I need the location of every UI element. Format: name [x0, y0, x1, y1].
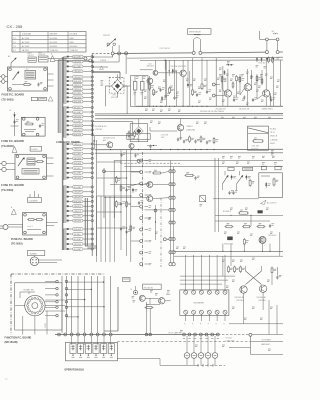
capacitor C71: [276, 276, 278, 278]
capacitor C32: [183, 140, 185, 142]
rail y106 dots: [149, 106, 150, 107]
bridge dark center: [115, 83, 120, 88]
wire main bus 2: [202, 51, 265, 54]
svg-text:25F2: 25F2: [113, 95, 117, 97]
svg-text:2SC1400 GR: 2SC1400 GR: [239, 109, 250, 111]
fuse F10: [273, 33, 278, 34]
node B2: [118, 52, 121, 55]
wire rotary taps: [45, 299, 65, 301]
wire main bus dashed: [92, 53, 111, 55]
operation bus junctions right: [183, 333, 186, 336]
svg-text:(TG-D003): (TG-D003): [1, 144, 14, 148]
outlet J1: [2, 161, 6, 165]
svg-text:PILOT LAMP 8V: PILOT LAMP 8V: [169, 331, 182, 334]
transformer T1 secondary w2: [63, 106, 66, 108]
resistor R33: [189, 136, 191, 138]
tuner label box: [27, 251, 44, 256]
capacitor C42: [194, 177, 196, 179]
switch S42: [237, 175, 243, 184]
wire below rotary: [22, 316, 24, 335]
wire link y178: [97, 177, 127, 179]
wire bus lower y57.7: [127, 56, 283, 59]
fuse box FB1: [228, 167, 234, 170]
svg-text:110-220V: 110-220V: [50, 42, 58, 44]
transformer T1 secondary w3: [63, 142, 66, 144]
svg-text:(TG-5003): (TG-5003): [1, 188, 13, 192]
resistor R64: [240, 266, 242, 268]
plug pair P13: [169, 263, 172, 266]
rail y149 dots: [110, 149, 111, 150]
svg-text:SILICON: SILICON: [111, 97, 117, 99]
wire out stage links: [227, 69, 229, 90]
fuse board 3 (TG-5003): [15, 154, 46, 179]
wire vert x130.8: [130, 150, 132, 262]
switch S0 above bus: [107, 43, 109, 45]
wire rail y149.5: [95, 148, 283, 150]
svg-text:ORN-WHT: ORN-WHT: [74, 192, 82, 194]
svg-text:4.7W REG: 4.7W REG: [95, 129, 103, 131]
svg-text:BLK-WHT: BLK-WHT: [74, 56, 82, 58]
wire box edge y160.5: [114, 160, 283, 162]
relay RY2 box: [39, 56, 49, 62]
text box TB1: [93, 122, 133, 136]
bridge rectifier D2: [134, 127, 143, 136]
wire rail y113.7: [95, 113, 283, 115]
svg-text:YEL-BLK: YEL-BLK: [74, 234, 82, 236]
svg-text:(2SB507A): (2SB507A): [187, 128, 196, 131]
capacitor C41: [138, 202, 140, 204]
svg-text:2SC1000 BL: 2SC1000 BL: [235, 297, 245, 299]
diode D10: [172, 69, 174, 74]
transistor Q13: [147, 182, 153, 188]
svg-text:2SD234 Y: 2SD234 Y: [147, 66, 156, 68]
svg-text:+: +: [132, 79, 133, 81]
resistor R25: [261, 78, 263, 80]
svg-text:B-52: B-52: [148, 64, 151, 66]
plug pair P12: [169, 251, 172, 254]
transistor Q12: [129, 143, 134, 148]
wire center verticals: [96, 196, 98, 262]
svg-text:FUNC: FUNC: [45, 322, 47, 328]
svg-text:BRN-WHT: BRN-WHT: [74, 134, 82, 136]
capacitor C44: [232, 191, 234, 193]
component K1: [258, 210, 263, 213]
fuse F2 box: [39, 97, 47, 100]
svg-text:GRN-BLK: GRN-BLK: [74, 144, 82, 146]
wire box edge x104: [103, 168, 105, 218]
wire meter to amp: [229, 347, 250, 349]
resistor R53: [242, 226, 244, 228]
resistor R45: [249, 179, 251, 181]
svg-text:GRN-BLK: GRN-BLK: [74, 206, 82, 208]
svg-text:110-220V: 110-220V: [50, 38, 58, 40]
wire box edge x114.2: [113, 161, 115, 219]
wire y276: [180, 275, 235, 277]
wire ladder links: [66, 281, 103, 283]
transformer T1 secondary w4: [63, 185, 66, 187]
label Q12 box: [127, 133, 150, 139]
wire r71: [271, 274, 273, 285]
wire y256 link: [174, 255, 283, 257]
wire y280: [180, 279, 228, 281]
capacitor C22: [252, 99, 254, 101]
wire y284: [180, 283, 222, 285]
svg-text:RED-WHT: RED-WHT: [74, 163, 82, 165]
wire bottom rail y106.3: [136, 105, 283, 107]
svg-text:100P: 100P: [161, 137, 165, 139]
capacitor C24: [243, 96, 245, 98]
resistor R67: [130, 225, 132, 227]
transformer T1 secondary w1: [63, 56, 66, 58]
svg-text:FUNCTION P.C. BOARD: FUNCTION P.C. BOARD: [5, 336, 32, 339]
capacitor C51: [269, 225, 271, 227]
resistor R71: [271, 267, 273, 269]
coil L1: [194, 38, 201, 40]
svg-text:GRN-WHT: GRN-WHT: [74, 77, 82, 79]
svg-text:VD1212 B-6: VD1212 B-6: [224, 243, 233, 245]
node B5: [199, 51, 202, 54]
node RT2: [212, 94, 215, 97]
faux text scatter: [145, 108, 148, 110]
svg-text:RY-5003: RY-5003: [252, 148, 259, 150]
svg-text:F-1: F-1: [13, 50, 16, 52]
svg-text:Lxx 4.7: Lxx 4.7: [28, 226, 33, 228]
svg-text:A RELAY P.C. BOARD: A RELAY P.C. BOARD: [56, 141, 80, 144]
capacitor C14: [196, 94, 198, 96]
svg-text:2SC1636 Ta-750: 2SC1636 Ta-750: [103, 138, 115, 140]
svg-text:ORN-BLK: ORN-BLK: [74, 89, 82, 91]
bridge D2 box: [130, 124, 147, 142]
lamps PL11-PL15: [184, 353, 190, 359]
svg-text:BLU-RED: BLU-RED: [74, 153, 82, 155]
svg-text:GRY-RED: GRY-RED: [74, 177, 82, 179]
plug P4: [3, 225, 8, 230]
wire TR drops: [266, 41, 268, 51]
warn triangle fb4: [11, 209, 16, 215]
lamp collect ticks: [197, 364, 199, 367]
resistor R54: [257, 226, 259, 228]
svg-text:120-240V: 120-240V: [50, 46, 59, 48]
resistor R35: [213, 137, 215, 139]
svg-text:RED-WHT: RED-WHT: [74, 101, 82, 103]
svg-text:T1.6A 250: T1.6A 250: [70, 49, 78, 52]
function board inner box: [15, 283, 62, 330]
plug J0: [1, 75, 5, 79]
wire stub y206: [131, 206, 140, 208]
resistor R11: [149, 83, 151, 85]
capacitor C15: [206, 91, 208, 93]
switch S41: [222, 175, 228, 184]
wire lamp collect: [160, 364, 196, 366]
svg-text:GRN-WHT: GRN-WHT: [74, 196, 82, 198]
node RT1: [212, 83, 215, 86]
label SPKR DRIVE: [188, 29, 212, 35]
svg-text:TUNER: TUNER: [30, 253, 38, 255]
svg-text:(TG-5003): (TG-5003): [11, 243, 23, 246]
transistor Q21: [159, 298, 165, 304]
svg-text:CX - 255: CX - 255: [7, 24, 24, 29]
svg-text:(2SC945): (2SC945): [237, 300, 245, 302]
connector column CB1: [142, 152, 144, 268]
voltage table: [12, 32, 86, 53]
svg-text:GRY-WHT: GRY-WHT: [74, 97, 82, 99]
wire plug verticals: [170, 161, 172, 263]
resistor R34: [200, 136, 202, 138]
speaker protection box: [259, 173, 283, 198]
node B1: [111, 52, 114, 55]
node B3: [125, 52, 128, 55]
wire right verticals: [222, 256, 224, 276]
faux labels right top: [219, 67, 222, 69]
power switch box: [30, 146, 41, 151]
svg-text:BLU-WHT: BLU-WHT: [74, 249, 82, 251]
wire main bus: [114, 52, 192, 55]
wire prot right: [213, 198, 259, 200]
transistor Q23 2SC1000: [259, 285, 266, 292]
svg-text:YEL-BLK: YEL-BLK: [74, 107, 82, 109]
arrow A1: [261, 200, 267, 204]
dashed box around D1: [109, 77, 124, 93]
wire tuner out: [39, 259, 62, 261]
wire top-left to bus: [48, 58, 84, 60]
wire main bus 3: [279, 51, 283, 53]
svg-text:T1.6A 250: T1.6A 250: [50, 49, 58, 52]
meter cluster: [133, 290, 137, 294]
wire fb3 right stubs: [46, 157, 53, 159]
wire mid drops: [149, 76, 151, 83]
svg-text:T-2: T-2: [13, 42, 16, 44]
wire box edge y163 dash: [120, 162, 180, 164]
wire prot h-links: [104, 170, 141, 172]
svg-text:BLU-WHT: BLU-WHT: [74, 66, 82, 68]
svg-text:RED-WHT: RED-WHT: [74, 229, 82, 231]
wire link y212: [97, 211, 121, 213]
capacitor C11: [159, 89, 161, 91]
wire rt verticals: [222, 66, 224, 106]
fuse board 4 (TG-5003): [23, 213, 47, 236]
component pair D21: [228, 64, 230, 66]
rotary switch SW1: [25, 295, 45, 315]
transistor Q10 2SB507: [177, 124, 183, 130]
svg-text:GRY-WHT: GRY-WHT: [74, 158, 82, 160]
transformer T1 secondary w5: [63, 228, 66, 230]
transformer tap wires: [67, 56, 69, 58]
wire rail y118.6: [95, 117, 283, 119]
wire rail y115.3: [95, 114, 283, 116]
transformer tap labels: [73, 55, 84, 58]
vbus tap junctions: [91, 56, 93, 58]
transformer T1 core: [61, 57, 63, 250]
svg-text:GRN-BLK: GRN-BLK: [74, 85, 82, 87]
resistor R15: [201, 83, 203, 85]
svg-text:ROTARY SW: ROTARY SW: [24, 289, 34, 292]
capacitor C31: [177, 138, 179, 140]
svg-text:2SC1000 BL: 2SC1000 BL: [144, 287, 154, 289]
wire rail y251.3: [174, 250, 283, 252]
capacitor C33: [194, 140, 196, 142]
filter box: [131, 76, 149, 107]
wire op blk drops: [71, 336, 73, 345]
diode D22: [224, 70, 226, 75]
svg-text:2A 125V: 2A 125V: [22, 49, 30, 52]
svg-text:BRN-WHT: BRN-WHT: [74, 201, 82, 203]
wire drop verticals: [61, 276, 63, 333]
wire fb1 right: [48, 73, 54, 75]
wire y215 rail: [215, 214, 283, 216]
svg-text:2SC1636 A-750: 2SC1636 A-750: [95, 125, 107, 128]
svg-text:1-JB045A: 1-JB045A: [270, 138, 278, 141]
wire Q down: [149, 84, 151, 106]
capacitor C2 filter: [140, 82, 144, 91]
capacitor C12: [164, 95, 166, 97]
svg-text:AMP ASSY: AMP ASSY: [262, 343, 271, 346]
capacitor C13: [173, 97, 175, 99]
svg-text:AC 120V: AC 120V: [22, 37, 30, 40]
svg-text:2SA700 GR(L): 2SA700 GR(L): [262, 108, 274, 111]
svg-text:LOUDNESS: LOUDNESS: [29, 200, 38, 202]
wire box edge y166.6: [124, 166, 283, 168]
svg-text:SPKR RELAY: SPKR RELAY: [189, 31, 201, 34]
resistor R43: [184, 174, 186, 176]
resistor R65: [120, 185, 122, 187]
svg-text:PWR SW: PWR SW: [103, 35, 110, 37]
resistor R14: [192, 89, 194, 91]
transistor Q16 dark: [259, 236, 266, 243]
wire TR bracket: [259, 31, 261, 39]
wire crossing X: [246, 271, 262, 285]
function board dashed border: [10, 274, 12, 335]
wire right drops: [268, 300, 270, 335]
transistor Q1 2SC1030: [153, 70, 158, 75]
wire fb4 out: [46, 222, 57, 224]
wire vbus x92.2: [91, 54, 93, 257]
node TL1: [84, 57, 87, 60]
svg-text:FUSE P.C. BOARD: FUSE P.C. BOARD: [2, 92, 25, 96]
svg-text:T-3: T-3: [13, 46, 16, 48]
wire x94.2: [93, 136, 95, 150]
wire SPKR drops: [193, 40, 195, 52]
connector CB1 stubs: [145, 160, 149, 162]
resistor R21: [221, 76, 223, 78]
transistor Q9: [263, 90, 270, 97]
svg-text:GRN-WHT: GRN-WHT: [74, 130, 82, 132]
svg-text:SPKR SW: SPKR SW: [38, 54, 46, 56]
svg-text:GRY-WHT: GRY-WHT: [74, 220, 82, 222]
bus junction labels: [183, 338, 185, 340]
transistor Q1b: [147, 78, 153, 84]
svg-text:BLU-WHT: BLU-WHT: [74, 187, 82, 189]
wire y140 links: [147, 145, 157, 147]
resistor R55: [243, 238, 245, 240]
node B6: [265, 51, 268, 54]
fuse board 2 (TG-5003): [21, 117, 45, 136]
transistor Q20: [139, 295, 145, 301]
transformer T1 primary: [58, 59, 61, 61]
svg-text:TR-15: TR-15: [270, 132, 275, 134]
capacitor C43: [228, 191, 230, 193]
wire vert x126.6: [126, 150, 128, 256]
relay contact box K2: [200, 196, 206, 202]
svg-text:BLU-RED: BLU-RED: [74, 216, 82, 218]
warn triangle TL: [50, 56, 55, 62]
zener D12: [187, 83, 189, 88]
capacitor C64: [120, 203, 122, 205]
lamp PL2: [12, 147, 17, 153]
power amp link box: [249, 336, 251, 354]
svg-text:ORN-WHT: ORN-WHT: [74, 125, 82, 127]
diode D43: [245, 175, 247, 180]
resistor R61: [145, 307, 147, 309]
fuse board 2 left parts: [14, 112, 16, 136]
fuse box FB2: [243, 167, 253, 170]
node B7: [276, 51, 279, 54]
node M1: [163, 238, 166, 241]
svg-text:BLK-WHT: BLK-WHT: [74, 173, 82, 175]
wire reg top: [140, 69, 153, 71]
fuse F1 box: [31, 97, 37, 100]
svg-text:2SC1030 (2SC1222): 2SC1030 (2SC1222): [171, 66, 187, 68]
wire q22 down: [243, 293, 245, 324]
svg-text:RY-5003 D: RY-5003 D: [223, 211, 232, 213]
node TL2: [89, 59, 92, 62]
wire drops to y251: [222, 244, 224, 252]
svg-text:U.S.A CAN: U.S.A CAN: [22, 33, 32, 36]
transistor Q11: [107, 142, 113, 148]
fuse box FB3: [261, 166, 266, 170]
plug pairs upper: [169, 170, 172, 173]
signal meter board: [180, 290, 229, 316]
label box above board4: [28, 198, 42, 203]
wire vert x121: [120, 150, 122, 250]
svg-text:T-1: T-1: [13, 38, 16, 40]
svg-text:GEN EXP: GEN EXP: [50, 34, 59, 36]
transistor Q7: [224, 90, 231, 97]
resistor R23: [239, 76, 241, 78]
svg-text:BLU-WHT: BLU-WHT: [74, 121, 82, 123]
svg-text:AC OUTLET: AC OUTLET: [267, 202, 276, 205]
corner cluster parts: [256, 57, 258, 62]
relay RY2 contact box: [248, 126, 269, 150]
wire dark vert x118: [117, 287, 119, 331]
wire stub y187: [127, 184, 140, 188]
svg-text:DM-07: DM-07: [270, 143, 275, 145]
wire op blk out: [117, 358, 160, 360]
svg-text:2SC1000 BL: 2SC1000 BL: [256, 297, 266, 299]
svg-text:BLU-RED: BLU-RED: [74, 93, 82, 95]
capacitor C26: [270, 96, 272, 98]
svg-text:FUSE P.C. BOARD: FUSE P.C. BOARD: [1, 139, 24, 143]
operation bus junctions left: [58, 333, 61, 336]
wire y221: [215, 220, 270, 222]
transistor Q22 2SC1000: [240, 286, 247, 293]
svg-text:ORN-WHT: ORN-WHT: [74, 71, 82, 73]
capacitor C1 filter: [133, 82, 137, 91]
svg-text:IL BULB 8V: IL BULB 8V: [226, 341, 236, 343]
transistor Q14: [147, 196, 153, 202]
capacitor C62: [134, 154, 136, 156]
wire meter bottoms: [185, 314, 187, 321]
svg-text:OPERATION BLK: OPERATION BLK: [64, 368, 84, 371]
wire rail y153: [95, 152, 283, 154]
diode D11: [161, 96, 163, 101]
svg-text:GRY-RED: GRY-RED: [74, 116, 82, 118]
svg-text:ORN-BLK: ORN-BLK: [74, 149, 82, 151]
svg-text:ORN-BLK: ORN-BLK: [74, 211, 82, 213]
switch S1: [11, 58, 16, 63]
node Q dots: [169, 70, 170, 71]
capacitor C25: [251, 75, 253, 77]
wire operation bus: [55, 334, 218, 336]
